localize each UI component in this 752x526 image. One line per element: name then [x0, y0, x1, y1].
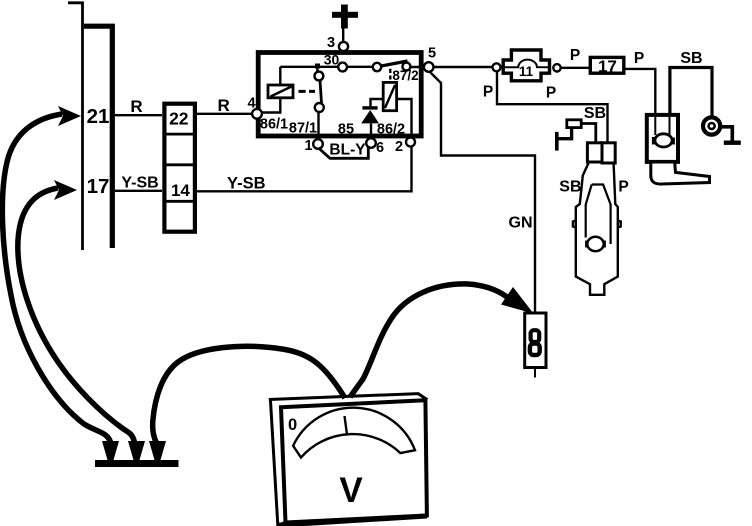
svg-text:0: 0: [288, 416, 297, 434]
switch 87/1 arm: [320, 81, 322, 104]
ground arrow 2: [128, 441, 145, 460]
fuse 11 body: [503, 50, 549, 81]
wire Y-SB from 17 to C:14: [115, 190, 162, 192]
injector connector left: [587, 143, 602, 162]
wire pin5 to fuse: [434, 66, 493, 68]
voltmeter bottom edge: [278, 516, 427, 525]
wire SB earth box to injector connector: [582, 124, 596, 144]
terminal circle under pin3: [338, 63, 347, 72]
switch 87/1 bottom contact: [315, 103, 324, 112]
wire bus to coil 86/1: [279, 67, 281, 84]
wire P from fuse down to injector connector: [497, 71, 608, 143]
svg-text:P: P: [618, 179, 628, 196]
connector 8 stub: [534, 368, 536, 378]
relay coil 86/2: [383, 82, 396, 110]
svg-text:R: R: [217, 96, 229, 115]
sensor unit body: [647, 115, 678, 162]
sensor float oval: [655, 134, 672, 147]
diode D1: [370, 124, 372, 137]
voltmeter lead to connector 8: [350, 284, 507, 397]
injector valve oval: [587, 237, 603, 251]
pin 5: [424, 62, 434, 72]
contact arm 87/2: [381, 61, 408, 66]
svg-text:V: V: [339, 471, 363, 510]
wire 87/1 to pin 1: [317, 112, 319, 140]
pin 4: [252, 109, 262, 119]
svg-text:6: 6: [376, 140, 384, 156]
injector connector right: [602, 143, 615, 163]
connector block C 22/14: [164, 104, 195, 232]
mech link dash 86/1 to 87/1: [299, 90, 316, 93]
probe arrow to 17: [54, 180, 77, 200]
relay coil 86/1: [268, 85, 293, 98]
ground screw bracket: [720, 127, 732, 141]
ground arrow 3: [149, 441, 166, 460]
svg-text:87/2: 87/2: [392, 68, 418, 83]
voltmeter left face: [271, 401, 286, 525]
wire R from C:22 to relay pin 4: [197, 113, 253, 115]
svg-text:86/2: 86/2: [377, 122, 405, 138]
ground screw: [703, 117, 720, 134]
svg-text:5: 5: [428, 46, 436, 62]
sensor lever foot: [651, 164, 710, 185]
svg-text:BL-Y: BL-Y: [329, 142, 366, 159]
battery supply symbol (cross): [341, 5, 348, 29]
svg-text:14: 14: [171, 181, 190, 200]
injector side nubs: [573, 221, 621, 228]
connector 8 box: [525, 313, 546, 368]
wire P fuse to box 17: [561, 67, 589, 69]
svg-text:4: 4: [247, 96, 255, 112]
svg-text:Y-SB: Y-SB: [227, 175, 266, 193]
wire Y-SB from C:14 to relay pin 2: [197, 146, 412, 191]
voltmeter front face: [281, 400, 427, 522]
svg-text:22: 22: [169, 108, 189, 128]
pin 6: [366, 138, 376, 148]
svg-text:86/1: 86/1: [260, 117, 288, 133]
svg-text:17: 17: [598, 57, 617, 76]
probe arrow to 21: [58, 106, 81, 126]
coil 86/2 to pin 2: [397, 99, 412, 135]
arrow into connector 8: [501, 287, 534, 314]
svg-text:3: 3: [327, 35, 335, 51]
voltmeter top face: [269, 394, 428, 400]
terminal circle 87/2 left: [373, 63, 381, 71]
connector rail 21/17: [84, 26, 112, 248]
voltmeter needle: [345, 416, 348, 435]
svg-text:P: P: [546, 85, 556, 102]
svg-text:Y-SB: Y-SB: [121, 174, 158, 191]
mech link dash to coil 86/2: [389, 69, 391, 80]
coil 86/1 to pin 4: [261, 98, 280, 113]
node bus line with hook: [68, 3, 83, 250]
svg-text:21: 21: [87, 105, 110, 128]
ground arrow 1: [102, 441, 119, 460]
svg-text:GN: GN: [509, 215, 533, 232]
wire GN pin5 to connector 8: [430, 72, 536, 314]
relay internal bus 30: [280, 66, 376, 68]
svg-text:SB: SB: [680, 50, 702, 67]
injector inner cone: [586, 185, 611, 245]
measuring lead A (ground to 21): [2, 114, 110, 442]
wire SB to ground screw: [670, 68, 712, 118]
svg-text:SB: SB: [559, 179, 581, 196]
earth terminal bar: [555, 132, 559, 151]
svg-text:17: 17: [87, 175, 110, 198]
voltmeter lead to ground: [153, 346, 345, 443]
svg-text:R: R: [130, 97, 142, 116]
svg-text:P: P: [483, 84, 493, 101]
svg-text:11: 11: [519, 64, 534, 79]
svg-text:30: 30: [324, 52, 340, 68]
switch 87/1 top contact: [316, 67, 318, 72]
svg-text:87/1: 87/1: [289, 121, 317, 137]
component box 17: [590, 57, 624, 73]
svg-text:85: 85: [338, 122, 354, 138]
fuse left terminal: [493, 63, 501, 71]
wire P box17 to sensor: [624, 69, 655, 115]
wire R from 21 to C:22: [115, 114, 162, 116]
svg-text:P: P: [570, 47, 580, 64]
earth point lead: [558, 129, 572, 139]
wire BL-Y pin1 to pin6: [319, 148, 369, 159]
voltmeter gauge scale: [293, 408, 415, 458]
pin 3: [339, 42, 348, 51]
fuse right terminal: [553, 64, 560, 71]
junction on bus: [315, 64, 320, 69]
svg-text:1: 1: [304, 138, 312, 154]
measuring lead B (ground to 17): [18, 188, 135, 442]
terminal circle 87/2 right: [402, 63, 410, 71]
injector body: [576, 163, 618, 295]
svg-text:2: 2: [395, 139, 403, 155]
wire supply to pin 3: [342, 28, 344, 42]
pin 1: [313, 139, 323, 149]
svg-text:SB: SB: [584, 105, 606, 122]
earth point switch box: [567, 120, 581, 128]
pin 2: [406, 138, 415, 147]
ground bar: [95, 460, 179, 467]
svg-text:P: P: [634, 50, 644, 67]
relay box U1: [258, 53, 421, 137]
